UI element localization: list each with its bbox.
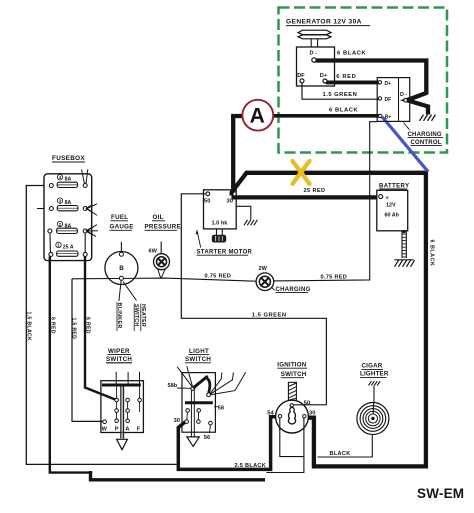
svg-text:6 BLACK: 6 BLACK [428,240,434,267]
leader to charging control label [404,123,410,130]
svg-text:B: B [119,265,124,272]
light switch pivot terminal [191,386,195,390]
svg-text:6 RED: 6 RED [50,317,56,334]
wiper switch box [101,381,143,433]
light switch lever [194,377,207,388]
svg-text:CHARGING: CHARGING [276,287,311,293]
svg-text:58b: 58b [168,383,178,389]
58 label [214,406,218,408]
ignition 30 drop stub [303,418,305,430]
starter motor label [197,230,201,248]
svg-text:P: P [115,426,119,432]
light switch hook terminal [207,393,211,397]
svg-text:6 RED: 6 RED [336,74,356,80]
headlight wires fan [210,372,222,393]
oil lamp legs [158,269,161,278]
wire ignition 54/30 link [266,418,304,473]
starter motor box [204,190,237,229]
fuse F3 [49,207,53,211]
heater switch label [133,304,135,332]
svg-text:12V: 12V [386,202,396,208]
yellow X cut mark [293,161,310,184]
wiper P column terminals [116,387,118,399]
svg-text:1.5 RED: 1.5 RED [71,318,77,340]
starter ground wire [236,206,251,219]
wiper knob shaft [120,387,122,439]
blinker label [116,302,118,331]
light switch box [182,373,215,433]
generator body U1 [297,47,335,86]
ammeter A [242,100,273,131]
battery ground strap [402,230,405,233]
wire 6 RED generator D+ to regulator [326,80,380,84]
svg-text:PRESSURE: PRESSURE [145,223,181,230]
svg-text:BLINKER: BLINKER [116,303,122,329]
fusebox body [44,174,92,261]
wire 2.5 BLACK light switch 30 to ignition 54 [178,417,278,470]
starter motor body [216,229,218,235]
ignition 50 wire tail [294,404,327,406]
svg-text:OIL: OIL [153,214,164,221]
ignition key [288,382,296,400]
wiper feed stubs [115,372,117,384]
fuse 3 stub left [37,208,44,210]
svg-text:BLACK: BLACK [330,451,351,457]
svg-text:30: 30 [174,418,180,424]
ignition terminal 54 [278,415,281,418]
wire 6 RED fuse 1 to bottom bus [50,257,91,473]
svg-text:CHARGING: CHARGING [408,132,442,138]
wire 6 RED fuse 1 to wiper P [85,257,115,400]
svg-text:0.75 RED: 0.75 RED [321,275,348,281]
starter ground [244,220,248,226]
svg-text:1.5 GREEN: 1.5 GREEN [252,312,287,318]
cigar lighter element [357,403,389,435]
wire starter 50 to ignition 50 (1.5 GREEN) [181,194,326,405]
ground for D- [420,115,436,121]
svg-text:W: W [102,426,108,432]
svg-text:0.75 RED: 0.75 RED [205,274,232,280]
svg-text:1.0 hk: 1.0 hk [212,221,229,227]
svg-text:6 BLACK: 6 BLACK [329,107,359,113]
light switch knob arrow [187,437,199,447]
wire 0.75 RED charging lamp to gauges [72,278,256,281]
wire 1.5 BLACK left bus [26,186,177,465]
blinker wire stub [119,280,121,301]
wire 1.5 RED fuse bus down to wiper W [72,279,103,422]
wire 6 BLACK battery feed to ignition 30 [306,172,426,467]
light switch terminals row 2 [185,420,189,424]
regulator terminal DF [378,97,381,100]
wiper W terminal [103,420,107,424]
fuse 4 feed wires [82,169,85,183]
svg-text:SWITCH: SWITCH [185,356,211,363]
cigar lighter ground [369,381,372,385]
svg-text:D+: D+ [385,81,392,87]
svg-text:58: 58 [218,406,224,412]
wiper knob arrow [117,439,128,449]
svg-text:SWITCH: SWITCH [133,304,139,326]
svg-text:D -: D - [400,92,407,98]
svg-text:IGNITION: IGNITION [277,361,306,368]
svg-text:6 BLACK: 6 BLACK [337,51,367,57]
regulator terminal D+ [378,81,381,84]
fuse F2 [48,229,52,233]
jumper fuse2-fuse1 left [49,233,51,252]
ignition terminal 30 [303,415,306,418]
svg-text:FUEL: FUEL [111,214,128,221]
wire 6 BLACK generator D- to ground [314,61,426,95]
ignition switch body [276,400,309,433]
svg-text:CIGAR: CIGAR [362,363,383,370]
wiper contact bar [102,384,141,387]
svg-text:2W: 2W [259,266,268,272]
pulley shaft [310,39,312,47]
wiper A column terminals [126,398,130,402]
svg-text:HEATER: HEATER [140,304,146,327]
svg-text:56: 56 [204,435,211,441]
svg-text:2.5 BLACK: 2.5 BLACK [235,463,267,469]
ignition terminal 50 [290,404,293,407]
regulator terminal B+ [379,114,382,117]
light switch terminals row 1 [186,409,190,413]
svg-text:F: F [137,426,141,432]
charging control box [377,78,410,122]
svg-text:LIGHT: LIGHT [189,348,209,355]
svg-text:54: 54 [267,410,274,416]
wire 6 BLACK ammeter to regulator B+ [272,114,381,118]
fuse 2 number [57,221,62,226]
svg-text:WIPER: WIPER [108,348,130,355]
svg-text:GAUGE: GAUGE [110,223,134,230]
generator terminal D- [312,58,316,62]
svg-text:60 Ah: 60 Ah [385,213,399,219]
generator pulley [298,30,331,34]
svg-text:A: A [125,426,129,432]
svg-text:D+: D+ [320,73,328,79]
svg-text:30: 30 [227,198,233,204]
light switch shaft [190,390,192,436]
svg-text:50: 50 [304,401,310,407]
generator terminal D+ [323,79,327,83]
svg-text:25 A: 25 A [63,244,74,250]
oil pressure lamp [154,254,170,270]
wire 1.5 GREEN generator DF to regulator [302,83,379,99]
svg-text:50: 50 [204,198,210,204]
wire 25 RED starter 30 to junction (disconnected) [232,173,427,193]
svg-text:BATTERY: BATTERY [379,183,409,189]
fuse 3 load wires [87,204,97,209]
wire blue jumper B+ to battery feed [382,117,428,172]
svg-text:FUSEBOX: FUSEBOX [52,155,85,162]
svg-text:6W: 6W [149,248,158,254]
fuse 3 number [57,198,62,203]
charging control internal divider [398,78,400,122]
fuse F1 [49,252,53,256]
svg-text:SWITCH: SWITCH [106,356,132,363]
generator terminal DF [300,79,304,83]
svg-text:STARTER MOTOR: STARTER MOTOR [197,249,253,255]
light switch feed lines [177,367,193,388]
svg-text:SWITCH: SWITCH [281,371,307,378]
fuse 1 number [56,242,61,247]
svg-text:25 RED: 25 RED [304,188,326,194]
wiper F column terminal [139,387,141,399]
heater switch wire stub [123,282,137,301]
svg-text:SW-EM: SW-EM [417,486,464,501]
wire 0.75 RED regulator to charging lamp [274,122,377,281]
cigar lighter ground wire [373,385,375,403]
ignition 54 drop stub [279,418,281,430]
battery box [377,190,408,231]
ignition keyhole [288,407,295,424]
fuse 4 number [57,175,62,180]
charging label [272,288,276,291]
svg-text:D -: D - [310,51,318,57]
fuse 2 load wires [87,225,97,231]
fuse F4 [49,184,53,188]
svg-text:A: A [250,105,265,128]
light switch lever hook [207,379,210,393]
starter terminal 50 [206,192,210,196]
fuel gauge sender stub [120,242,122,252]
fuel gauge [105,252,138,285]
regulator terminal D- [404,98,408,102]
svg-text:GENERATOR 12V 30A: GENERATOR 12V 30A [286,18,362,25]
light switch contact bar [185,401,213,404]
wire BLACK to cigar lighter [318,435,373,457]
battery + terminal [379,195,383,199]
svg-text:6 RED: 6 RED [85,317,91,334]
wire battery cable starter 30 to battery + [232,195,380,199]
svg-text:1.5 GREEN: 1.5 GREEN [323,92,358,98]
56 label [209,425,210,433]
svg-text:CONTROL: CONTROL [411,140,442,146]
generator compartment dashed outline [279,8,448,153]
wire ammeter to starter 30 [233,116,242,193]
wire bottom bus to ignition 54 [91,471,266,480]
svg-text:30: 30 [309,410,315,416]
svg-text:LIGHTER: LIGHTER [360,371,389,378]
battery ground [395,259,414,261]
svg-text:B+: B+ [385,114,392,120]
oil lamp stub [160,242,162,254]
svg-text:DF: DF [297,73,305,79]
svg-text:DF: DF [385,97,392,103]
svg-text:1.5 BLACK: 1.5 BLACK [26,312,32,342]
charging lamp [256,273,274,291]
jumper fuse2-fuse1 right [84,233,86,252]
